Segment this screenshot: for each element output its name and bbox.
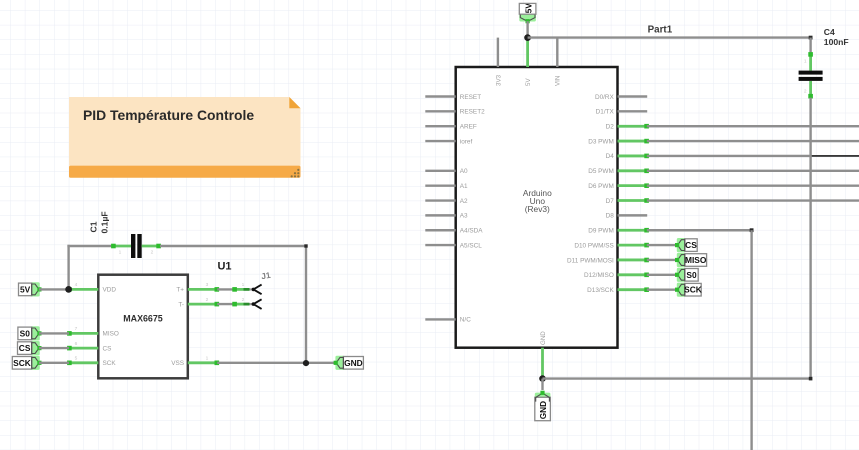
wire: vertical down to VSS/GND net	[305, 245, 307, 363]
Arduino pin D8 (right)	[606, 213, 648, 220]
Arduino pin N/C (left, unconnected)	[425, 317, 471, 324]
svg-text:GND: GND	[539, 401, 548, 419]
svg-text:AREF: AREF	[460, 124, 477, 131]
wire Part1: 5V junction to C4	[528, 36, 811, 38]
note: PID Temperature Controle sticky note	[69, 97, 301, 178]
net label S0 (left)	[18, 326, 42, 340]
wire: GND junction down to label	[541, 379, 543, 390]
net label S0 (right)	[675, 268, 698, 282]
net label MISO (right)	[675, 253, 707, 267]
svg-text:N/C: N/C	[460, 317, 471, 324]
svg-text:CS: CS	[685, 240, 697, 250]
junction: 5V node	[65, 286, 72, 293]
svg-text:D13/SCK: D13/SCK	[587, 287, 614, 294]
svg-text:5V: 5V	[525, 3, 534, 14]
svg-text:D0/RX: D0/RX	[595, 94, 615, 101]
junction: Arduino GND node	[539, 375, 546, 382]
wire: SCK label to SCK pin	[39, 362, 69, 364]
svg-text:100nF: 100nF	[824, 37, 849, 47]
svg-text:C1: C1	[89, 221, 99, 232]
Arduino pin RESET2 (left, unconnected)	[425, 109, 485, 116]
corner bendpoint	[304, 244, 307, 247]
svg-text:2: 2	[151, 250, 154, 256]
svg-text:RESET2: RESET2	[460, 109, 485, 116]
wire: D4 black segment to right edge	[811, 155, 859, 157]
svg-text:C4: C4	[824, 27, 835, 37]
wire: D9 vertical to bottom edge	[750, 230, 752, 450]
svg-text:D9 PWM: D9 PWM	[588, 228, 614, 235]
capacitor C1 0.1uF	[89, 211, 161, 258]
net label 5V (top, rotated)	[519, 3, 536, 24]
svg-text:3: 3	[206, 282, 209, 288]
Arduino pin A4/SDA (left, unconnected)	[425, 228, 483, 235]
Arduino pin A0 (left, unconnected)	[425, 168, 468, 175]
wire: GND horizontal to C4 branch	[543, 377, 811, 379]
svg-text:A1: A1	[460, 183, 468, 190]
U1 pin T- (right)	[178, 297, 219, 309]
wire: D13 to SCK label	[647, 288, 678, 290]
corner bendpoint D9	[750, 228, 754, 232]
wire: D6 PWM to right edge	[647, 184, 859, 186]
net label CS (left)	[18, 341, 42, 355]
svg-text:2: 2	[804, 89, 807, 95]
wire: D5 PWM to right edge	[647, 170, 859, 172]
wire: D12 to S0 label	[647, 274, 678, 276]
Arduino pin VIN (top)	[555, 38, 562, 86]
svg-text:CS: CS	[19, 343, 31, 353]
U1 pin SCK (left)	[67, 356, 116, 368]
svg-text:1: 1	[206, 356, 209, 362]
junction: VSS/C1 node	[303, 360, 309, 366]
wire: D2 to right edge	[647, 125, 859, 127]
svg-text:7: 7	[75, 326, 78, 332]
Arduino pin A5/SCL (left, unconnected)	[425, 242, 482, 249]
svg-text:VSS: VSS	[171, 360, 184, 367]
Arduino pin D1/TX (right)	[596, 109, 648, 116]
svg-text:CS: CS	[103, 345, 112, 352]
svg-text:A0: A0	[460, 168, 468, 175]
svg-text:Part1: Part1	[648, 25, 673, 36]
svg-text:2: 2	[242, 297, 245, 303]
svg-text:D5 PWM: D5 PWM	[588, 168, 614, 175]
Arduino pin ioref (left, unconnected)	[425, 138, 472, 145]
wire: corner to C1 left lead	[67, 245, 113, 247]
IC U1 MAX6675 body	[98, 275, 188, 379]
Arduino pin D12/MISO (right)	[584, 272, 649, 279]
net label SCK (left)	[12, 356, 41, 370]
wire: C1 right lead to vertical drop	[160, 245, 306, 247]
svg-text:D7: D7	[606, 198, 615, 205]
U1 pin T+ (right)	[176, 282, 219, 294]
svg-text:S0: S0	[686, 270, 697, 280]
Arduino pin GND (bottom, connected)	[540, 331, 547, 379]
wire: D9 horizontal	[647, 229, 752, 231]
Arduino pin AREF (left, unconnected)	[425, 124, 477, 131]
wire: D10 to CS label	[647, 244, 678, 246]
Arduino pin 3V3 (top)	[495, 38, 502, 86]
Arduino pin A3 (left, unconnected)	[425, 213, 468, 220]
svg-text:D11 PWM/MOSI: D11 PWM/MOSI	[567, 257, 614, 264]
Arduino pin D11 PWM/MOSI (right)	[567, 257, 649, 264]
wire: D7 to right edge	[647, 199, 859, 201]
svg-text:3V3: 3V3	[495, 74, 502, 86]
wire: C4 bottom to GND net	[809, 98, 811, 379]
svg-text:D8: D8	[606, 213, 615, 220]
svg-text:1: 1	[242, 282, 245, 288]
connector J1 pin 2	[232, 297, 261, 309]
svg-text:6: 6	[75, 341, 78, 347]
Arduino pin D4 (right)	[606, 153, 649, 160]
Arduino pin D3 PWM (right)	[588, 138, 649, 145]
wire end dot	[809, 377, 813, 381]
svg-text:SCK: SCK	[103, 360, 117, 367]
svg-text:D10 PWM/SS: D10 PWM/SS	[574, 242, 613, 249]
svg-text:4: 4	[75, 282, 78, 288]
wire: 5V label to VDD	[39, 288, 69, 290]
svg-text:S0: S0	[20, 328, 31, 338]
wire: T+ to J1 pin 1	[217, 288, 234, 290]
svg-text:SCK: SCK	[684, 285, 702, 295]
Arduino pin D6 PWM (right)	[588, 183, 649, 190]
Arduino pin D2 (right)	[606, 124, 649, 131]
svg-text:(Rev3): (Rev3)	[525, 204, 550, 214]
svg-text:1: 1	[119, 250, 122, 256]
svg-text:A5/SCL: A5/SCL	[460, 242, 482, 249]
net label 5V (left)	[19, 282, 42, 296]
wire: D3 PWM to right edge	[647, 140, 859, 142]
junction: 5V top node	[524, 34, 531, 41]
svg-text:1: 1	[804, 59, 807, 65]
svg-text:A3: A3	[460, 213, 468, 220]
Arduino pin D10 PWM/SS (right)	[574, 242, 649, 249]
Arduino pin A1 (left, unconnected)	[425, 183, 468, 190]
Arduino pin D7 (right)	[606, 198, 649, 205]
svg-text:RESET: RESET	[460, 94, 481, 101]
svg-text:T+: T+	[176, 287, 184, 294]
svg-text:A2: A2	[460, 198, 468, 205]
Arduino pin RESET (left, unconnected)	[425, 94, 481, 101]
U1 pin CS (left)	[67, 341, 111, 353]
svg-text:5: 5	[75, 356, 78, 362]
U1 pin MISO (left)	[67, 326, 119, 338]
svg-text:D6 PWM: D6 PWM	[588, 183, 614, 190]
connector J1 pin 1	[232, 282, 261, 294]
svg-text:MISO: MISO	[685, 255, 707, 265]
svg-text:D3 PWM: D3 PWM	[588, 138, 614, 145]
svg-text:VDD: VDD	[103, 287, 117, 294]
svg-text:5V: 5V	[20, 284, 31, 294]
svg-text:PID Température Controle: PID Température Controle	[83, 107, 254, 123]
svg-text:D1/TX: D1/TX	[596, 109, 615, 116]
net label CS (right)	[675, 238, 697, 252]
wire: D4 to C4 net	[647, 155, 811, 157]
Arduino pin D9 PWM (right)	[588, 228, 649, 235]
svg-text:D4: D4	[606, 153, 615, 160]
wire: CS label to CS pin	[39, 347, 69, 349]
svg-text:2: 2	[206, 297, 209, 303]
svg-text:A4/SDA: A4/SDA	[460, 228, 483, 235]
capacitor C4 100nF	[799, 27, 849, 99]
svg-text:D2: D2	[606, 124, 615, 131]
svg-text:D12/MISO: D12/MISO	[584, 272, 614, 279]
U1 pin VSS (right)	[171, 356, 219, 368]
wire: VSS to GND label	[217, 362, 336, 364]
U1 pin VDD (left)	[67, 282, 116, 294]
Arduino pin 5V (top, connected)	[525, 38, 532, 86]
Arduino pin D13/SCK (right)	[587, 287, 649, 294]
wire: T- to J1 pin 2	[217, 303, 234, 305]
svg-text:5V: 5V	[525, 78, 532, 86]
wire: 5V label down to junction	[526, 21, 528, 37]
wire: down to C4	[809, 38, 811, 54]
corner bendpoint at C4 top	[809, 36, 813, 40]
svg-text:GND: GND	[540, 331, 547, 345]
wire: D11 to MISO label	[647, 259, 678, 261]
svg-text:MAX6675: MAX6675	[123, 313, 163, 323]
svg-text:VIN: VIN	[555, 76, 562, 86]
net label SCK (right)	[675, 283, 702, 297]
net label GND (bottom, rotated)	[535, 391, 551, 421]
Arduino pin D0/RX (right)	[595, 94, 647, 101]
Arduino pin D5 PWM (right)	[588, 168, 649, 175]
IC Part1 Arduino Uno (Rev3) body	[456, 67, 618, 348]
svg-text:SCK: SCK	[13, 358, 31, 368]
svg-text:0.1µF: 0.1µF	[100, 211, 110, 233]
net label GND (right of U1)	[334, 356, 364, 370]
svg-text:U1: U1	[217, 261, 231, 273]
svg-text:T-: T-	[178, 301, 184, 308]
svg-text:ioref: ioref	[460, 138, 473, 145]
svg-text:MISO: MISO	[103, 331, 119, 338]
svg-text:GND: GND	[344, 358, 363, 368]
Arduino pin A2 (left, unconnected)	[425, 198, 468, 205]
wire: 5V junction up to C1 level	[67, 245, 69, 290]
wire: S0 label to MISO	[39, 332, 69, 334]
